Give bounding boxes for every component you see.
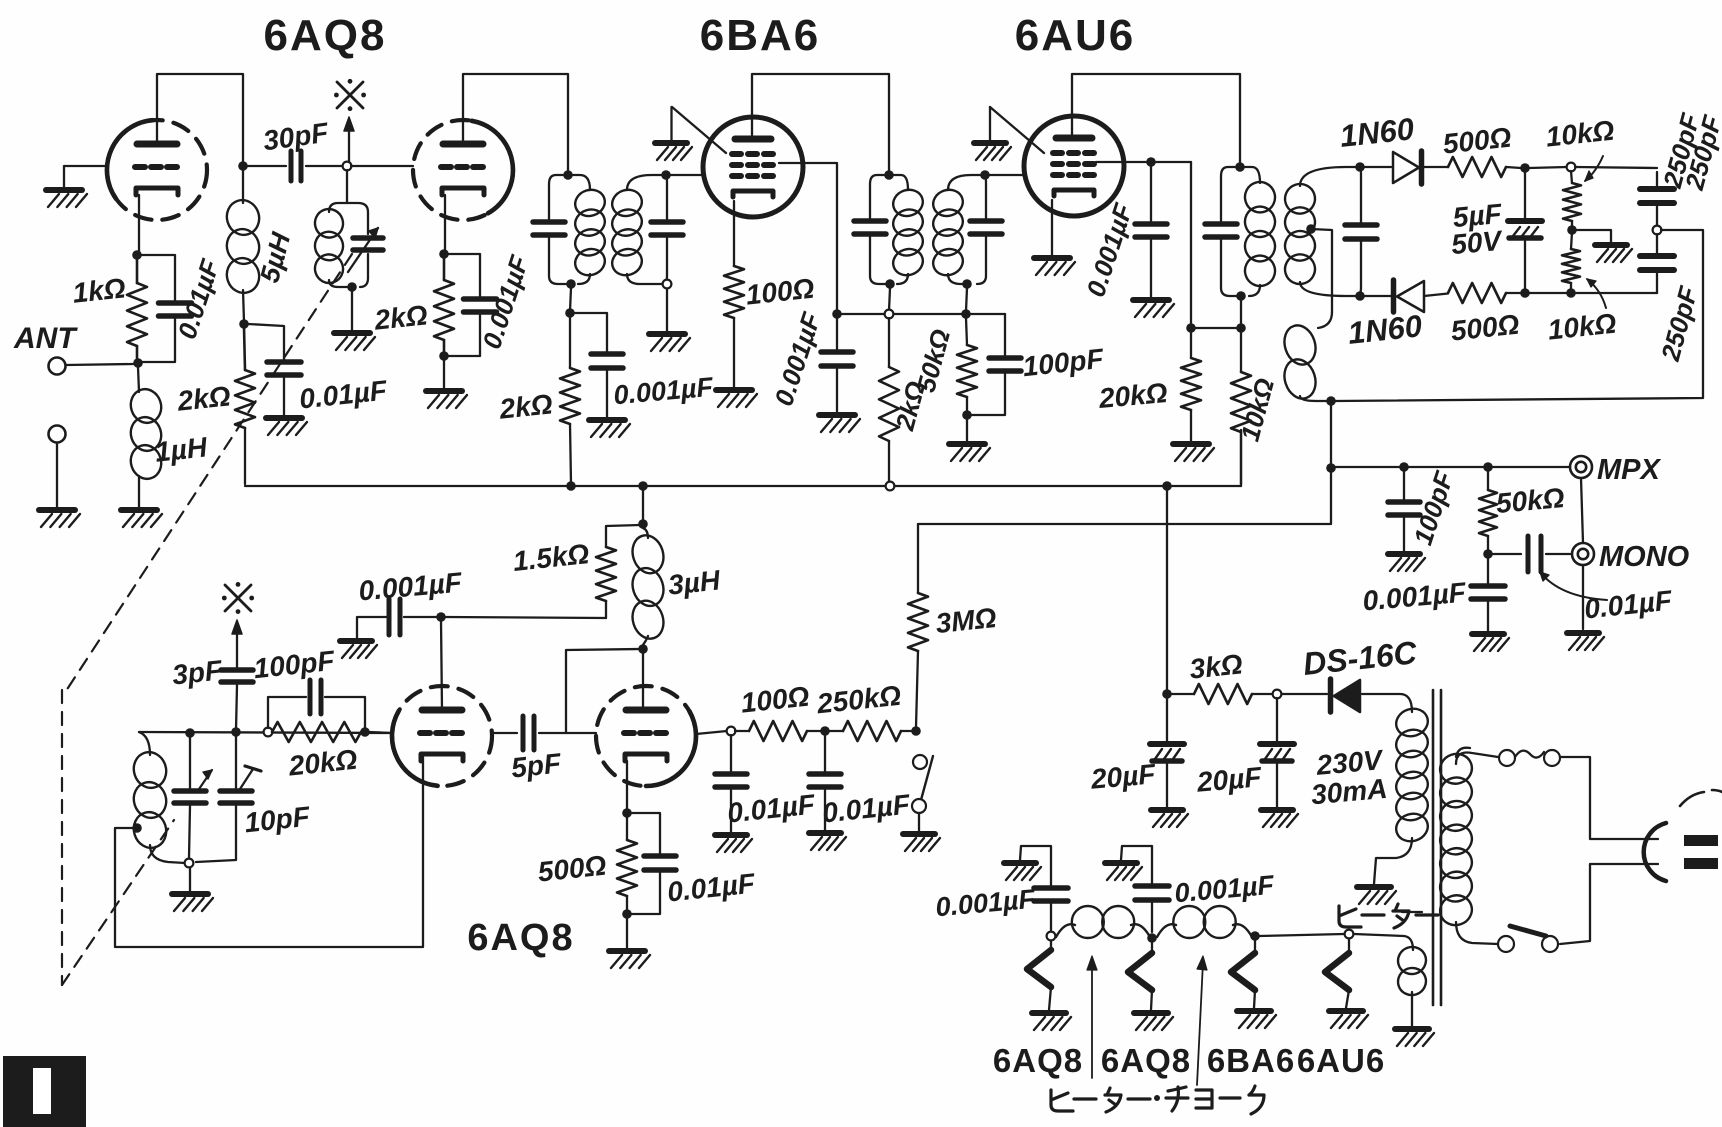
- wire MPX to MONO jack: [1581, 478, 1583, 543]
- label 6AQ8 (htr): [993, 1042, 1083, 1079]
- segment screen bus: [837, 313, 1005, 315]
- label 5uF: [1452, 198, 1504, 233]
- wire to coupling cap: [1492, 553, 1521, 555]
- svg-text:MPX: MPX: [1597, 454, 1662, 486]
- wire feedback loop: [115, 757, 423, 947]
- wire 6AU6 cathode: [1051, 200, 1053, 255]
- wire to ground (V1b cath): [443, 360, 445, 388]
- label 10pF: [243, 801, 312, 839]
- svg-text:20µF: 20µF: [1195, 761, 1264, 798]
- switch mains right: [1542, 936, 1558, 952]
- label 5uH: [254, 229, 296, 286]
- ground spare terminal: [39, 510, 80, 527]
- label 3uH: [667, 564, 723, 600]
- arrow gang (lower): [232, 620, 242, 668]
- label 5pF: [510, 747, 564, 783]
- wire tank line: [139, 732, 392, 733]
- ground T1 sec: [649, 334, 690, 351]
- inductor T3 pri: [1241, 178, 1279, 290]
- wire T1 pri bottom: [570, 288, 571, 311]
- svg-text:3MΩ: 3MΩ: [934, 602, 998, 639]
- capacitor 0.01uF (AF1): [715, 735, 747, 832]
- node T2 open: [885, 310, 894, 319]
- heater V1 (6AQ8): [1027, 941, 1051, 1010]
- label 100pF (MPX): [1408, 467, 1460, 549]
- node 100pF left (open): [264, 728, 273, 737]
- wire osc tank stem: [346, 170, 348, 203]
- wire to rectifier: [1282, 693, 1327, 695]
- arrow choke 2: [1197, 956, 1207, 1085]
- capacitor 5pF: [523, 716, 534, 750]
- arrow pot bottom: [1587, 279, 1606, 308]
- ground screen cap: [1133, 300, 1174, 317]
- wire primary top to fuse: [1456, 752, 1498, 764]
- resistor 100ohm (AF): [735, 721, 821, 741]
- ground V5 cathode: [609, 951, 650, 968]
- label 2kohm (osc): [175, 380, 232, 416]
- scan artifact: [3, 1056, 86, 1127]
- ground 6BA6 grid cap: [655, 143, 692, 160]
- capacitor 5uF 50V: [1508, 172, 1542, 289]
- resistor 2kohm (T2): [879, 318, 899, 483]
- tube V1b' 6AQ8 triode (2nd): [392, 686, 492, 786]
- wire rectifier to winding: [1362, 694, 1412, 712]
- wire 6BA6 cathode: [733, 201, 735, 266]
- label MPX: [1597, 454, 1662, 486]
- capacitor 100pF bracket: [970, 314, 1005, 415]
- label 6AQ8 (lower): [467, 917, 574, 959]
- junction coil tap: [132, 823, 142, 833]
- wire tank bottom to ground: [189, 868, 191, 891]
- junction 3uH bottom: [638, 644, 648, 654]
- wire T1 node to cap: [574, 313, 607, 352]
- wire B+ bus: [245, 485, 1241, 487]
- capacitor 100pF plates (osc2): [310, 680, 321, 714]
- wire 6AU6 plate to T3: [1072, 74, 1240, 163]
- capacitor 20uF (1): [1150, 698, 1184, 807]
- junction seg left: [832, 309, 842, 319]
- junction seg right: [961, 309, 971, 319]
- junction T2 pri bottom: [885, 279, 895, 289]
- junction AF mid: [820, 726, 830, 736]
- wire T1 sec bottom to ground: [666, 289, 668, 331]
- wire wiper to ground: [1576, 230, 1611, 242]
- label 250pF (1): [1657, 109, 1706, 191]
- label 230V: [1314, 744, 1385, 781]
- label 10kohm (bottom): [1546, 308, 1618, 346]
- wire V1a plate to 5uH top: [157, 74, 243, 203]
- wire T2 pri bottom: [889, 288, 890, 311]
- resistor 3Mohm: [908, 524, 928, 727]
- svg-text:2kΩ: 2kΩ: [497, 388, 554, 424]
- resistor 500ohm (top): [1448, 157, 1506, 177]
- capacitor 0.01uF bracket (V5): [631, 813, 660, 914]
- ground heater V4: [1329, 1011, 1368, 1028]
- wire HV winding to ground: [1374, 838, 1412, 884]
- junction cathode node: [132, 250, 142, 260]
- svg-text:2kΩ: 2kΩ: [372, 299, 429, 335]
- capacitor osc tuning (variable): [353, 238, 383, 250]
- svg-text:3kΩ: 3kΩ: [1188, 648, 1244, 684]
- label 250pF (2): [1679, 111, 1722, 193]
- node bus T2 (open): [886, 482, 895, 491]
- tube V1a' 6AQ8 triode (2nd): [596, 686, 696, 786]
- capacitor trimmer 10pF: [196, 736, 252, 862]
- terminal spare: [49, 426, 66, 443]
- switch muting lever: [921, 756, 933, 800]
- capacitor tuning var (10pF gang): [174, 737, 206, 858]
- junction bus feed: [1162, 481, 1172, 491]
- junction tank capB: [231, 727, 241, 737]
- ground heater V3: [1237, 1011, 1276, 1028]
- label 2kohm (T2): [889, 378, 931, 434]
- label 0.01uF (coupling): [1583, 584, 1674, 624]
- dashed gang line (diag2): [62, 820, 174, 985]
- label 0.01uF (AF1): [726, 788, 817, 828]
- ground AF2: [809, 833, 846, 850]
- label 2kohm (V1b cath): [372, 299, 429, 335]
- resistor 1.5kohm: [596, 525, 639, 618]
- terminal ANT: [49, 358, 66, 375]
- capacitor 0.001uF bracket (V1b): [448, 254, 480, 356]
- capacitor 0.001uF plates (V1b): [464, 299, 497, 312]
- wire switch to primary: [1456, 922, 1498, 944]
- ground 100pF (MPX): [1388, 554, 1425, 571]
- node heater 4 (open): [1345, 930, 1354, 939]
- wire screen feed down: [1190, 162, 1192, 326]
- switch mains lever: [1510, 926, 1546, 936]
- junction tertiary bottom: [1326, 396, 1336, 406]
- svg-text:6AQ8: 6AQ8: [1101, 1042, 1191, 1079]
- inductor T2 sec: [930, 186, 967, 279]
- capacitor T1 sec: [651, 222, 683, 235]
- junction 5uF top: [1520, 163, 1530, 173]
- wire V1b cathode down: [444, 195, 446, 250]
- capacitor 30pF: [291, 151, 301, 181]
- label 0.01uF (V5): [666, 867, 757, 907]
- wire V1a grid to ground: [64, 166, 107, 187]
- heater V4 (6AU6): [1325, 939, 1349, 1008]
- wire 6AU6 grid cap: [990, 107, 1044, 153]
- label 500ohm (V5): [536, 850, 608, 888]
- wire bus right end: [1240, 430, 1242, 486]
- wire V4 plate up: [441, 620, 442, 710]
- label 6AQ8 (htr2): [1101, 1042, 1191, 1079]
- IFT T1 secondary frame: [627, 175, 667, 284]
- junction heater mid: [1147, 933, 1157, 943]
- ground pot wiper: [1595, 245, 1632, 262]
- svg-text:1µH: 1µH: [154, 431, 210, 467]
- capacitor 0.001uF (T1): [591, 354, 623, 368]
- capacitor 100pF plates: [989, 358, 1021, 371]
- ground 20uF (1): [1151, 810, 1188, 827]
- inductor heater choke 1: [1056, 906, 1150, 938]
- node osc grid (open): [343, 162, 352, 171]
- svg-text:5pF: 5pF: [510, 747, 564, 783]
- label 6AQ8 (top): [264, 11, 387, 60]
- label 20kohm: [1097, 377, 1169, 414]
- wire ANT to node: [66, 364, 133, 365]
- switch muting top: [913, 755, 927, 769]
- label DS-16C: [1301, 634, 1419, 682]
- capacitor T2 sec: [970, 221, 1002, 234]
- junction T1 pri bottom: [566, 279, 576, 289]
- capacitor 0.01uF coupling: [1528, 536, 1541, 572]
- label 1N60 (bottom): [1346, 308, 1423, 351]
- label 20kohm (osc2): [286, 744, 359, 782]
- capacitor 100pF (MPX): [1388, 471, 1420, 551]
- label 0.01uF (RF cathode): [172, 255, 226, 343]
- label 0.001uF (htr2): [1173, 870, 1276, 909]
- svg-text:1kΩ: 1kΩ: [71, 272, 127, 308]
- svg-text:20kΩ: 20kΩ: [1097, 377, 1169, 414]
- wire 6BA6 grid cap: [672, 107, 727, 153]
- label 2kohm (T1): [497, 388, 554, 424]
- gang mark (lower): [222, 582, 254, 614]
- arrow choke 1: [1087, 956, 1097, 1078]
- label heater choke (kana): [1051, 1086, 1264, 1114]
- switch mains left: [1498, 936, 1514, 952]
- wire V5 cathode: [626, 761, 628, 810]
- label 0.001uF (V1b): [476, 251, 535, 353]
- wire 3pF down: [236, 685, 237, 730]
- wire 50k to ground: [966, 419, 968, 441]
- label 0.001uF (T2): [768, 308, 827, 410]
- ground 0.001uF (osc2): [340, 641, 377, 658]
- resistor 1kohm: [127, 259, 147, 360]
- label 10kohm (AVC): [1235, 375, 1280, 444]
- ground T1 cap: [589, 420, 630, 437]
- capacitor T3 pri: [1205, 224, 1237, 237]
- ground tank: [172, 894, 213, 911]
- osc tank frame: [329, 203, 368, 287]
- wire spare terminal to ground: [56, 443, 58, 507]
- svg-text:6BA6: 6BA6: [1207, 1042, 1295, 1079]
- arrow gang (top): [344, 117, 354, 162]
- junction V5 cath: [622, 808, 632, 818]
- label 1kohm: [71, 272, 127, 308]
- wire 6AU6 screen: [1096, 161, 1191, 163]
- ground 6AU6 cathode: [1034, 258, 1075, 275]
- junction screen cap: [1146, 157, 1156, 167]
- wire fuse to plug top: [1560, 757, 1658, 839]
- ground 1uH: [121, 510, 162, 527]
- node tank bottom (open): [185, 859, 194, 868]
- wire V4 grid: [369, 732, 392, 733]
- label 50V: [1450, 225, 1505, 260]
- wire T3 pri bottom: [1240, 300, 1242, 326]
- arrow pot top: [1585, 156, 1603, 181]
- tube V3 6AU6 pentode (IF amp/limiter): [1024, 116, 1124, 216]
- wire to 5uF node: [1506, 167, 1521, 168]
- fuse element: [1515, 751, 1544, 758]
- inductor T3 sec: [1281, 180, 1319, 288]
- tube V1a 6AQ8 triode (RF amp): [107, 120, 207, 220]
- ground 6BA6 cathode: [716, 390, 757, 407]
- label 250pF (3): [1655, 282, 1704, 364]
- gang mark (top): [334, 79, 366, 111]
- diode DS-16C: [1331, 679, 1361, 712]
- wire B+ drop: [1166, 490, 1168, 692]
- heater V2 (6AQ8): [1128, 943, 1152, 1010]
- svg-text:30mA: 30mA: [1310, 773, 1389, 811]
- wire T2 sec bottom: [966, 288, 967, 311]
- IFT T3 primary frame: [1221, 167, 1260, 296]
- junction 20k right: [360, 727, 370, 737]
- ground V1a grid: [46, 190, 87, 207]
- dashed gang line (vert): [61, 690, 63, 985]
- wire switch to ground: [918, 813, 920, 831]
- wire AF line: [918, 471, 1331, 524]
- wire bottom rail: [1506, 292, 1657, 294]
- ground AF1: [715, 835, 752, 852]
- wire V1b plate to T1: [463, 74, 568, 172]
- wire to 30pF: [247, 165, 286, 167]
- capacitor 0.001uF (osc2): [357, 599, 437, 638]
- fuse holder right: [1544, 750, 1560, 766]
- ground MONO jack: [1567, 633, 1604, 650]
- ground T2 cap: [819, 415, 860, 432]
- ground osc tank: [334, 333, 375, 350]
- label 50kohm (MPX): [1495, 482, 1566, 519]
- resistor 2kohm (V1b cath): [434, 258, 454, 353]
- inductor T3 tertiary: [1280, 312, 1332, 403]
- label 1N60 (top): [1338, 111, 1415, 154]
- node T1 sec bottom (open): [663, 280, 672, 289]
- junction 100pF tap: [1399, 462, 1409, 472]
- wire top rail right: [1575, 167, 1657, 168]
- svg-text:50kΩ: 50kΩ: [1495, 482, 1566, 519]
- svg-text:50V: 50V: [1450, 225, 1505, 260]
- capacitor T2 pri: [854, 221, 886, 234]
- label 100pF: [1021, 343, 1106, 382]
- label 100pF (osc2): [252, 645, 337, 684]
- capacitor 0.01uF plates (V5): [644, 856, 676, 870]
- capacitor T3 sec: [1345, 225, 1377, 239]
- wire 6BA6 plate to T2: [752, 74, 889, 171]
- resistor 100ohm (6BA6): [724, 266, 744, 318]
- ground htr cap1: [1004, 863, 1041, 880]
- junction V5 cath bottom: [622, 909, 632, 919]
- label 30mA: [1310, 773, 1389, 811]
- svg-text:6AU6: 6AU6: [1015, 11, 1136, 60]
- label ANT: [13, 322, 78, 355]
- label 1.5kohm: [511, 538, 590, 577]
- wire 6BA6 screen: [779, 163, 837, 310]
- resistor 3kohm: [1171, 684, 1271, 704]
- ground 20uF (2): [1261, 810, 1298, 827]
- junction T3 pri top: [1235, 162, 1245, 172]
- ground heater winding: [1395, 1029, 1434, 1046]
- wire T1 to 6BA6 grid: [670, 174, 704, 176]
- junction MPX node: [1326, 463, 1336, 473]
- svg-text:6AQ8: 6AQ8: [467, 917, 574, 959]
- inductor T2 pri: [890, 186, 927, 279]
- label 500ohm (top): [1441, 122, 1513, 160]
- wire V5 cath ground: [626, 918, 628, 948]
- junction pot bottom: [1566, 288, 1576, 298]
- capacitor 20uF (2): [1260, 698, 1294, 807]
- IFT T2 primary frame: [870, 175, 908, 284]
- svg-text:6BA6: 6BA6: [700, 11, 821, 60]
- junction T2 pri top: [884, 170, 894, 180]
- terminal MPX: [1570, 456, 1592, 478]
- heater V3 (6BA6): [1231, 940, 1255, 1008]
- wire V5 plate up: [642, 653, 644, 710]
- ground 20kohm: [1173, 444, 1214, 461]
- junction V1b cathode: [439, 249, 449, 259]
- label 500ohm (bottom): [1449, 309, 1521, 347]
- junction T3 center tap: [1306, 224, 1316, 234]
- label 20uF (1): [1089, 758, 1158, 795]
- svg-text:6AQ8: 6AQ8: [993, 1042, 1083, 1079]
- label 0.01uF (AF2): [821, 788, 912, 828]
- inductor 3uH: [628, 528, 668, 645]
- capacitor 0.01uF bracket (par 1kohm): [141, 255, 175, 362]
- wire 0.01uF #2 to ground: [283, 378, 285, 415]
- potentiometer 10kohm top: [1563, 171, 1581, 228]
- wire heater bus: [1259, 934, 1344, 936]
- ground 6AU6 grid cap: [974, 143, 1011, 160]
- label 0.001uF (screen): [1080, 199, 1139, 301]
- wire T3 to bottom diode: [1364, 294, 1448, 297]
- AC plug: [1644, 790, 1722, 881]
- junction 10k top: [1236, 323, 1246, 333]
- label 6AU6 (top): [1015, 11, 1136, 60]
- junction heater right: [1250, 931, 1260, 941]
- resistor 250kohm: [829, 721, 912, 741]
- diode 1N60 (top): [1393, 151, 1422, 184]
- label 3kohm: [1188, 648, 1244, 684]
- wire center tap: [1311, 229, 1332, 312]
- inductor ant coil: [129, 732, 185, 863]
- IFT T3 secondary frame: [1300, 167, 1361, 296]
- label 100ohm (AF): [739, 681, 811, 719]
- node audio out (open): [1653, 226, 1662, 235]
- svg-text:6AU6: 6AU6: [1297, 1042, 1385, 1079]
- label 0.01uF #2: [298, 374, 389, 414]
- capacitor 0.001uF (MONO): [1471, 558, 1505, 631]
- svg-text:3pF: 3pF: [171, 654, 225, 690]
- junction 3uH top: [638, 519, 648, 529]
- label 10kohm (top): [1544, 115, 1616, 153]
- inductor mains primary: [1436, 748, 1476, 930]
- junction V1b cath bottom: [439, 351, 449, 361]
- junction osc tank bottom: [347, 282, 357, 292]
- ground heater V2: [1134, 1013, 1173, 1030]
- junction pot wiper: [1567, 225, 1577, 235]
- resistor 20kohm (osc2): [272, 722, 361, 742]
- resistor 10kohm (AVC): [1231, 332, 1251, 484]
- terminal MONO: [1572, 543, 1594, 565]
- junction T3 pri bottom: [1236, 291, 1246, 301]
- junction bus T1: [566, 481, 576, 491]
- trimmer mark: [240, 766, 261, 789]
- wire 5pF to V5 grid: [539, 732, 596, 734]
- label 20uF (2): [1195, 761, 1264, 798]
- capacitor 0.001uF (htr2): [1121, 846, 1169, 932]
- arrow var cap: [197, 770, 212, 792]
- wire plate node to 1.5k: [445, 617, 606, 618]
- junction T1 pri top: [563, 170, 573, 180]
- wire 3uH to grid line: [566, 649, 639, 733]
- capacitor 100pF bracket (osc2): [268, 697, 365, 728]
- inductor 5uH: [222, 196, 263, 322]
- svg-text:6AQ8: 6AQ8: [264, 11, 387, 60]
- junction bus osc2: [638, 481, 648, 491]
- resistor 50kohm (MPX): [1479, 471, 1497, 551]
- svg-text:ANT: ANT: [13, 322, 78, 355]
